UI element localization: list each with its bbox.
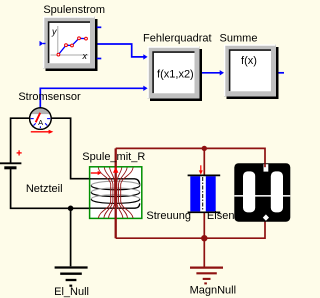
magnetic wire: Streuung top stub	[203, 148, 205, 175]
coil L1: flux fan lines	[98, 168, 133, 219]
current sensor U4: current direction arrow	[31, 130, 54, 134]
coil L1: winding top lead	[90, 179, 140, 186]
block U2: input arrow 2	[143, 86, 147, 91]
table block U1: data points	[57, 37, 87, 56]
signal wire: current sensor to Fehlerquadrat input 2	[40, 88, 144, 108]
coil L1: current arrow	[91, 171, 102, 175]
current sensor U4: body	[30, 108, 52, 130]
current sensor U4: needle	[36, 113, 41, 123]
svg-text:MagnNull: MagnNull	[190, 285, 236, 297]
wire: battery top to sensor	[11, 118, 30, 163]
table block U1: plot axes	[51, 26, 89, 61]
leakage G1: flux arrow	[199, 165, 203, 174]
signal wire: Fehlerquadrat to Summe	[202, 72, 220, 74]
table block U1: output pin 1	[97, 26, 102, 28]
magnetic wire: coil bottom to Eisen bottom	[116, 222, 265, 239]
svg-text:Spulenstrom: Spulenstrom	[43, 4, 105, 16]
table block U1: data curve	[58, 38, 86, 54]
block U2: input arrow 1	[143, 54, 147, 59]
block U2 Fehlerquadrat: frame	[148, 47, 203, 102]
junction node magnetic bottom	[201, 235, 207, 241]
signal wire: Summe output stub	[279, 72, 285, 74]
ground MagnNull	[190, 238, 223, 283]
core G2: top pin red tip	[264, 164, 266, 168]
core G2 Eisen: body	[234, 163, 290, 222]
signal wire: table output to Fehlerquadrat input 1	[98, 44, 145, 57]
coil L1: flux direction arrow	[113, 167, 118, 173]
svg-text:Fehlerquadrat: Fehlerquadrat	[143, 33, 212, 45]
svg-text:f(x): f(x)	[241, 55, 257, 67]
table block U1: output pin 3	[97, 58, 102, 60]
wire: sensor to coil top lead	[51, 118, 89, 179]
current sensor U4: dial ticks	[31, 119, 51, 129]
coil L1: winding turns	[91, 181, 139, 203]
magnetic wire: Streuung bottom stub	[203, 212, 205, 239]
block U3: input arrow	[220, 70, 224, 75]
svg-text:Stromsensor: Stromsensor	[18, 91, 81, 103]
block U3 Summe: frame	[224, 45, 279, 100]
svg-text:x: x	[82, 51, 88, 61]
svg-text:Eisen: Eisen	[207, 210, 235, 222]
junction node magnetic top	[202, 146, 207, 151]
ground El_Null	[55, 208, 88, 285]
svg-text:y: y	[51, 27, 57, 37]
coil L1: winding bottom lead	[90, 203, 140, 208]
junction node electrical	[68, 206, 74, 212]
wire: battery bottom to coil bottom lead	[11, 169, 90, 209]
leakage G1 Streuung: body	[188, 175, 221, 212]
table block U1 Spulenstrom: frame	[43, 17, 98, 72]
coil L1: flux center line	[115, 148, 117, 238]
svg-text:A: A	[38, 118, 43, 127]
magnetic wire: coil top to Eisen top	[116, 148, 265, 166]
svg-text:El_Null: El_Null	[54, 286, 89, 298]
battery V1: plus sign	[17, 150, 22, 155]
svg-text:Spule_mit_R: Spule_mit_R	[82, 151, 145, 163]
table block U1: input arrow	[40, 41, 46, 46]
svg-text:Summe: Summe	[220, 33, 258, 45]
svg-text:Netzteil: Netzteil	[26, 183, 63, 195]
battery V1 Netzteil: plates	[0, 163, 21, 168]
coil L1 Spule_mit_R: green box	[90, 167, 142, 219]
svg-text:Streuung: Streuung	[146, 210, 191, 222]
svg-text:f(x1,x2): f(x1,x2)	[157, 69, 194, 81]
